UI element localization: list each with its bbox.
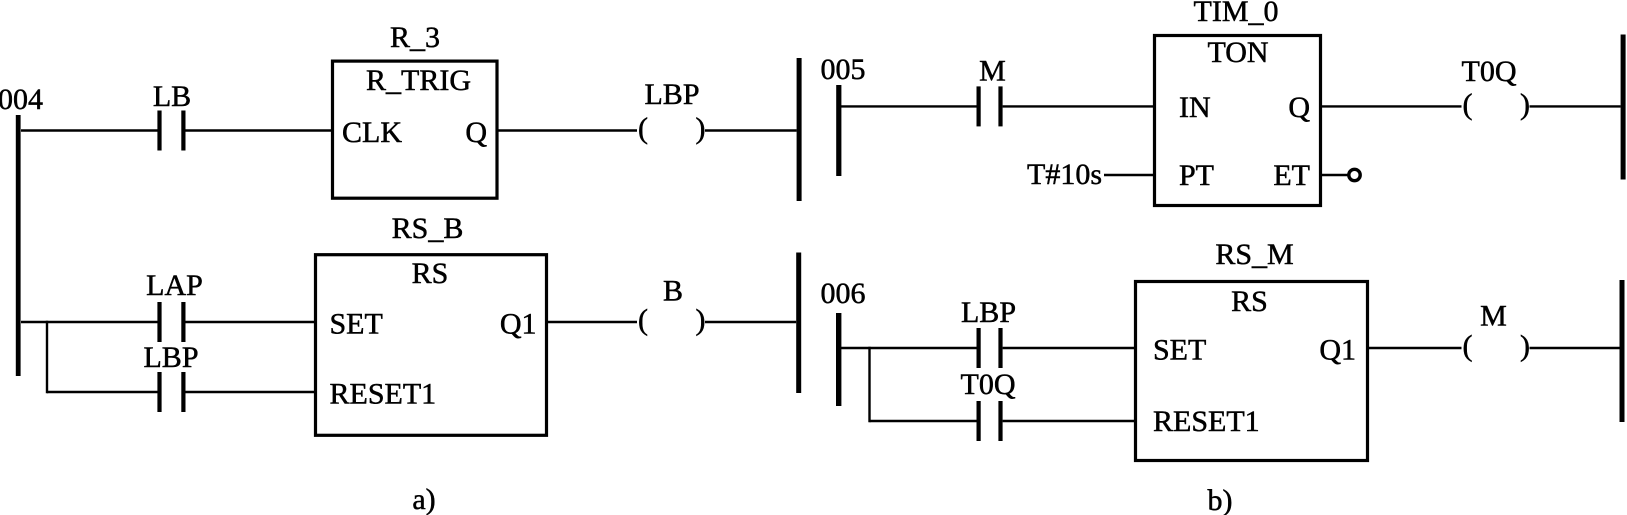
- svg-text:005: 005: [821, 53, 866, 86]
- svg-text:PT: PT: [1179, 159, 1214, 192]
- svg-text:B: B: [663, 275, 683, 308]
- svg-text:Q1: Q1: [1319, 334, 1356, 367]
- svg-text:Q: Q: [465, 116, 487, 149]
- svg-text:): ): [1520, 330, 1530, 363]
- svg-text:R_TRIG: R_TRIG: [366, 64, 471, 97]
- svg-text:M: M: [1480, 300, 1507, 333]
- svg-text:IN: IN: [1179, 91, 1211, 124]
- svg-text:M: M: [979, 55, 1006, 88]
- svg-text:RS_B: RS_B: [392, 212, 464, 245]
- svg-text:R_3: R_3: [390, 21, 440, 54]
- svg-text:): ): [696, 304, 706, 337]
- svg-text:LBP: LBP: [644, 78, 699, 111]
- svg-text:LBP: LBP: [143, 341, 198, 374]
- svg-text:RS: RS: [412, 257, 449, 290]
- svg-text:ET: ET: [1273, 159, 1310, 192]
- svg-text:Q1: Q1: [500, 308, 537, 341]
- svg-text:b): b): [1208, 484, 1233, 515]
- svg-text:TIM_0: TIM_0: [1194, 0, 1279, 28]
- svg-text:CLK: CLK: [342, 116, 402, 149]
- svg-text:RS_M: RS_M: [1215, 238, 1293, 271]
- svg-text:T#10s: T#10s: [1027, 158, 1102, 191]
- svg-text:): ): [696, 112, 706, 145]
- svg-text:LBP: LBP: [961, 296, 1016, 329]
- svg-text:006: 006: [821, 277, 866, 310]
- svg-text:(: (: [638, 304, 648, 337]
- svg-text:004: 004: [0, 83, 43, 116]
- svg-text:SET: SET: [1153, 334, 1206, 367]
- svg-text:LB: LB: [153, 80, 191, 113]
- svg-text:T0Q: T0Q: [1462, 55, 1517, 88]
- svg-text:(: (: [1463, 88, 1473, 121]
- svg-text:a): a): [412, 483, 435, 515]
- svg-text:RESET1: RESET1: [330, 378, 437, 411]
- svg-text:(: (: [638, 112, 648, 145]
- svg-text:SET: SET: [330, 308, 383, 341]
- svg-text:RESET1: RESET1: [1153, 405, 1260, 438]
- svg-text:T0Q: T0Q: [961, 368, 1016, 401]
- svg-text:TON: TON: [1207, 36, 1268, 69]
- svg-text:): ): [1520, 88, 1530, 121]
- svg-text:LAP: LAP: [146, 269, 203, 302]
- svg-text:(: (: [1463, 330, 1473, 363]
- svg-text:Q: Q: [1288, 91, 1310, 124]
- svg-text:RS: RS: [1231, 285, 1268, 318]
